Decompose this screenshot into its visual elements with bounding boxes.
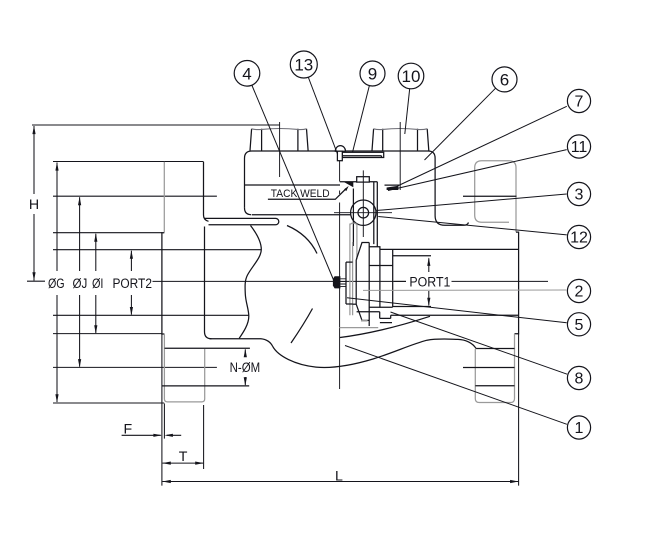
dimension PORT2	[130, 250, 133, 315]
extension line OJ bottom	[53, 366, 217, 368]
right raised face	[515, 232, 519, 334]
dimension PORT1	[427, 257, 430, 306]
label L	[335, 469, 343, 485]
disc plate	[353, 243, 370, 321]
retainer strip	[342, 152, 383, 157]
right body lobe grey	[475, 161, 516, 232]
dimension OG	[55, 162, 58, 403]
body interior arc inlet upper	[287, 226, 317, 254]
vertical centerline	[339, 161, 341, 389]
left flange face lower grey	[164, 334, 204, 402]
left neck vertical	[204, 162, 209, 222]
extension line OG bottom	[53, 402, 164, 404]
bore top line left	[53, 249, 261, 251]
leader 12	[378, 217, 567, 235]
label H	[29, 197, 39, 213]
svg-text:13: 13	[294, 56, 313, 75]
hinge pin	[351, 200, 376, 225]
left bolt centerline	[279, 122, 281, 177]
body bottom S-curve	[273, 339, 476, 368]
leader 1	[345, 346, 567, 425]
balloon 12	[567, 225, 590, 248]
balloon 8	[567, 366, 590, 389]
right hex bolt	[372, 129, 429, 151]
body top joint line	[252, 214, 351, 216]
bonnet lower-left corner	[245, 208, 252, 215]
leader 13	[308, 78, 337, 155]
svg-text:3: 3	[575, 187, 584, 204]
seat ring	[369, 243, 393, 327]
balloon 13	[290, 51, 317, 78]
leader 8	[391, 312, 568, 374]
balloon 1	[567, 416, 590, 439]
label TACK WELD	[271, 188, 330, 200]
weld bead triangle	[343, 182, 353, 188]
svg-text:4: 4	[242, 64, 251, 83]
body interior arc outlet	[340, 316, 430, 337]
centerline horizontal	[153, 280, 549, 282]
svg-text:PORT2: PORT2	[112, 276, 152, 292]
right bolt centerline	[399, 122, 401, 190]
svg-text:12: 12	[570, 230, 588, 247]
left hex bolt	[250, 129, 308, 151]
leader 11	[388, 150, 567, 191]
body lower grey line	[340, 327, 379, 329]
left flange face upper grey	[163, 162, 165, 233]
balloon 11	[567, 135, 590, 158]
hinge arm cap	[357, 177, 370, 182]
dimension N-OM	[244, 349, 247, 386]
labels OG OJ OI PORT2	[48, 276, 152, 292]
leader 6	[425, 88, 496, 160]
balloon 2	[567, 279, 590, 302]
stem thread ticks	[340, 279, 345, 287]
hub top line	[210, 339, 273, 347]
balloon 9	[360, 61, 385, 86]
leader 3	[376, 194, 566, 211]
extension line L left	[161, 334, 163, 486]
body interior arc inlet lower	[291, 309, 313, 344]
extension line F right	[163, 404, 165, 439]
right flange lower grey	[475, 334, 514, 403]
label F	[123, 422, 132, 438]
bonnet outline	[245, 151, 469, 225]
balloon 5	[567, 313, 590, 336]
svg-text:5: 5	[575, 317, 584, 334]
PORT1 centerline stub	[394, 280, 406, 282]
balloon 7	[567, 89, 590, 112]
stop pin wedge	[385, 185, 400, 190]
leader 4	[252, 86, 334, 282]
leader 10	[405, 89, 410, 134]
svg-text:L: L	[335, 469, 343, 485]
svg-text:6: 6	[500, 70, 509, 89]
extension line OI top	[53, 232, 163, 234]
label N-OM	[230, 360, 261, 376]
tack weld note	[268, 186, 349, 199]
bonnet gasket slot	[205, 218, 279, 224]
leader 7	[398, 106, 567, 186]
extension line L right	[518, 334, 520, 486]
dimension T	[162, 462, 203, 465]
svg-text:9: 9	[368, 65, 377, 84]
leader 9	[353, 86, 370, 153]
svg-text:8: 8	[575, 371, 584, 388]
dimension F	[122, 434, 182, 437]
left flange bolt hole lines	[162, 348, 250, 386]
extension line OJ top	[53, 195, 217, 197]
svg-text:PORT1: PORT1	[409, 274, 450, 290]
svg-text:ØG: ØG	[48, 276, 65, 292]
disc washer	[346, 262, 353, 304]
balloon 4	[234, 61, 260, 87]
disc rim grey	[361, 320, 368, 322]
bonnet inner face line	[245, 184, 400, 186]
disc retainer grey	[350, 223, 357, 315]
svg-text:1: 1	[575, 420, 584, 437]
balloon 6	[492, 67, 517, 92]
leader 2	[363, 289, 567, 291]
extension line T right	[203, 405, 205, 469]
svg-text:11: 11	[571, 139, 588, 156]
extension line flange top	[53, 161, 204, 163]
label T	[179, 449, 188, 465]
svg-text:T: T	[179, 449, 188, 465]
left flange back vertical	[205, 227, 212, 339]
hinge pin crosshair	[334, 170, 392, 237]
svg-text:F: F	[123, 422, 132, 438]
right flange bolt hole lines	[463, 349, 515, 386]
svg-text:N-ØM: N-ØM	[230, 360, 261, 376]
disc nut	[333, 276, 341, 288]
leader 5	[347, 298, 567, 323]
balloon 3	[567, 182, 590, 205]
dimension H	[27, 126, 45, 282]
extension line OI bottom	[53, 333, 163, 335]
dimension OJ	[78, 197, 81, 368]
outlet port bore	[357, 249, 519, 315]
right flange bolt line	[463, 195, 517, 197]
extension line H top	[32, 124, 280, 126]
dimension OI	[94, 233, 97, 333]
dimension L	[162, 480, 518, 483]
svg-text:2: 2	[575, 284, 584, 301]
svg-text:TACK WELD: TACK WELD	[271, 188, 330, 200]
retainer pin	[335, 146, 345, 161]
hinge bracket	[340, 182, 378, 247]
balloon 10	[398, 63, 424, 89]
left raised face	[162, 233, 165, 334]
label PORT1	[409, 274, 450, 290]
svg-text:10: 10	[402, 67, 421, 86]
svg-text:ØI: ØI	[92, 276, 104, 292]
svg-text:H: H	[29, 197, 39, 213]
svg-text:7: 7	[575, 94, 584, 111]
body left wavy contour	[239, 226, 261, 339]
bore bottom line left	[53, 314, 249, 316]
svg-text:ØJ: ØJ	[73, 276, 88, 292]
